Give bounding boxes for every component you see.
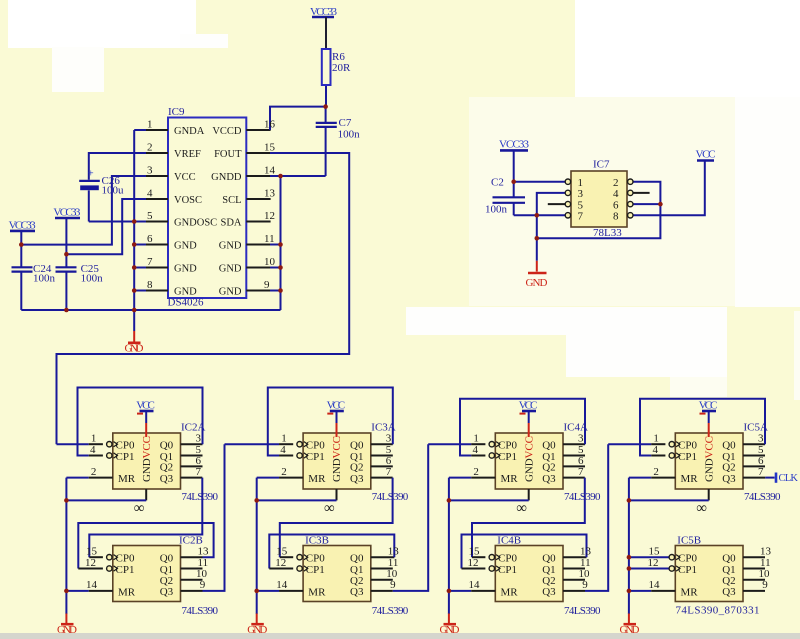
svg-text:C2: C2 (491, 177, 504, 189)
svg-text:3: 3 (386, 433, 392, 445)
svg-text:14: 14 (264, 165, 276, 177)
svg-text:4: 4 (280, 444, 286, 456)
svg-text:7: 7 (578, 466, 584, 478)
svg-text:GNDD: GNDD (211, 172, 242, 183)
svg-text:Q2: Q2 (350, 462, 363, 474)
svg-text:2: 2 (613, 177, 619, 189)
svg-text:11: 11 (264, 233, 275, 245)
svg-text:VOSC: VOSC (174, 195, 202, 206)
svg-text:15: 15 (276, 546, 288, 558)
svg-text:Q3: Q3 (350, 473, 364, 485)
svg-text:Q2: Q2 (160, 575, 173, 587)
svg-text:Q0: Q0 (722, 440, 736, 452)
svg-text:VCCD: VCCD (212, 126, 242, 137)
svg-text:IC7: IC7 (593, 159, 610, 171)
svg-text:14: 14 (276, 579, 288, 591)
svg-text:CP1: CP1 (116, 564, 135, 576)
svg-text:16: 16 (264, 119, 276, 131)
svg-text:GNDOSC: GNDOSC (174, 218, 217, 229)
svg-text:12: 12 (275, 557, 286, 569)
svg-text:9: 9 (390, 579, 396, 591)
svg-text:1: 1 (473, 433, 479, 445)
svg-text:IC5B: IC5B (677, 535, 701, 547)
svg-text:2: 2 (91, 466, 97, 478)
svg-text:DS4026: DS4026 (168, 297, 205, 309)
svg-text:4: 4 (90, 444, 96, 456)
svg-text:GND: GND (125, 343, 144, 355)
svg-text:CP1: CP1 (306, 451, 325, 463)
svg-text:GND: GND (440, 624, 460, 636)
svg-text:2: 2 (473, 466, 479, 478)
svg-text:5: 5 (578, 199, 584, 211)
svg-text:6: 6 (147, 233, 153, 245)
svg-text:Q0: Q0 (350, 440, 364, 452)
svg-text:14: 14 (469, 579, 481, 591)
svg-text:CP1: CP1 (678, 564, 697, 576)
svg-text:GND: GND (219, 241, 242, 252)
svg-text:IC3A: IC3A (371, 422, 396, 434)
svg-text:13: 13 (388, 546, 400, 558)
svg-text:Q2: Q2 (542, 462, 555, 474)
svg-text:GND: GND (174, 264, 197, 275)
svg-text:9: 9 (200, 579, 206, 591)
svg-text:Q3: Q3 (160, 473, 174, 485)
svg-text:GNDVCC: GNDVCC (331, 436, 343, 482)
svg-text:Q3: Q3 (542, 586, 556, 598)
svg-text:12: 12 (468, 557, 479, 569)
svg-text:74LS390: 74LS390 (564, 605, 601, 617)
svg-text:74LS390: 74LS390 (182, 605, 219, 617)
svg-text:CP0: CP0 (498, 440, 517, 452)
svg-text:CP1: CP1 (498, 451, 517, 463)
svg-text:15: 15 (264, 142, 276, 154)
svg-text:3: 3 (578, 433, 584, 445)
svg-text:100n: 100n (33, 273, 56, 285)
svg-text:CP0: CP0 (678, 440, 697, 452)
svg-text:GND: GND (247, 624, 267, 636)
svg-text:1: 1 (91, 433, 97, 445)
svg-text:GNDVCC: GNDVCC (523, 436, 535, 482)
svg-text:12: 12 (85, 557, 96, 569)
svg-text:13: 13 (198, 546, 210, 558)
svg-text:CP0: CP0 (116, 440, 135, 452)
svg-text:100u: 100u (102, 185, 125, 197)
svg-text:7: 7 (147, 256, 153, 268)
svg-text:8: 8 (613, 211, 619, 223)
svg-text:15: 15 (649, 546, 661, 558)
svg-text:12: 12 (264, 210, 275, 222)
svg-text:2: 2 (281, 466, 287, 478)
svg-text:IC2A: IC2A (181, 422, 206, 434)
svg-text:MR: MR (501, 473, 519, 485)
svg-text:Q2: Q2 (542, 575, 555, 587)
svg-text:GND: GND (174, 241, 197, 252)
svg-text:VCC: VCC (696, 149, 716, 161)
svg-text:78L33: 78L33 (593, 227, 622, 239)
svg-text:CP1: CP1 (306, 564, 325, 576)
svg-text:VREF: VREF (174, 149, 201, 160)
svg-text:74LS390: 74LS390 (372, 605, 409, 617)
svg-text:3: 3 (147, 165, 153, 177)
svg-text:FOUT: FOUT (214, 149, 242, 160)
svg-text:GND: GND (620, 624, 640, 636)
svg-text:IC3B: IC3B (305, 535, 329, 547)
svg-text:CP0: CP0 (498, 553, 517, 565)
svg-text:CP1: CP1 (678, 451, 697, 463)
svg-text:GND: GND (219, 287, 242, 298)
svg-text:GND: GND (219, 264, 242, 275)
svg-text:Q2: Q2 (722, 462, 735, 474)
svg-text:9: 9 (762, 579, 768, 591)
svg-text:4: 4 (653, 444, 659, 456)
svg-text:13: 13 (760, 546, 772, 558)
svg-text:8: 8 (147, 279, 153, 291)
svg-text:12: 12 (648, 557, 659, 569)
svg-text:CP0: CP0 (306, 440, 325, 452)
svg-text:∞: ∞ (696, 501, 707, 517)
svg-text:GNDA: GNDA (174, 126, 205, 137)
svg-text:Q0: Q0 (160, 553, 174, 565)
svg-text:∞: ∞ (516, 501, 527, 517)
svg-text:Q2: Q2 (350, 575, 363, 587)
svg-text:∞: ∞ (324, 501, 335, 517)
svg-text:C7: C7 (339, 117, 352, 129)
svg-text:Q0: Q0 (350, 553, 364, 565)
svg-text:Q3: Q3 (160, 586, 174, 598)
svg-text:74LS390: 74LS390 (744, 491, 781, 503)
svg-text:Q3: Q3 (350, 586, 364, 598)
svg-text:∞: ∞ (134, 501, 145, 517)
svg-text:7: 7 (758, 466, 764, 478)
svg-text:1: 1 (653, 433, 659, 445)
svg-text:CP0: CP0 (306, 553, 325, 565)
svg-text:MR: MR (681, 586, 699, 598)
svg-text:CLK: CLK (779, 473, 799, 484)
svg-text:11: 11 (198, 557, 209, 569)
svg-text:IC4B: IC4B (497, 535, 521, 547)
svg-text:Q2: Q2 (160, 462, 173, 474)
svg-text:11: 11 (580, 557, 591, 569)
svg-text:14: 14 (649, 579, 661, 591)
svg-text:+: + (88, 169, 94, 180)
svg-text:74LS390: 74LS390 (564, 491, 601, 503)
svg-text:GND: GND (526, 277, 548, 289)
svg-text:6: 6 (613, 199, 619, 211)
svg-text:MR: MR (308, 473, 326, 485)
svg-text:2: 2 (147, 142, 153, 154)
svg-text:11: 11 (388, 557, 399, 569)
svg-text:SDA: SDA (220, 218, 241, 229)
svg-text:4: 4 (147, 188, 153, 200)
svg-text:IC5A: IC5A (744, 422, 769, 434)
svg-text:GNDVCC: GNDVCC (141, 436, 153, 482)
svg-text:74LS390: 74LS390 (182, 491, 219, 503)
svg-text:CP0: CP0 (116, 553, 135, 565)
svg-text:IC4A: IC4A (564, 422, 589, 434)
svg-text:MR: MR (118, 586, 136, 598)
svg-text:Q1: Q1 (350, 564, 363, 576)
svg-text:CP1: CP1 (116, 451, 135, 463)
svg-text:MR: MR (681, 473, 699, 485)
svg-text:SCL: SCL (222, 195, 241, 206)
svg-text:100n: 100n (485, 204, 508, 216)
svg-text:MR: MR (308, 586, 326, 598)
svg-text:7: 7 (196, 466, 202, 478)
svg-text:15: 15 (86, 546, 98, 558)
svg-text:2: 2 (653, 466, 659, 478)
svg-text:MR: MR (501, 586, 519, 598)
svg-text:MR: MR (118, 473, 136, 485)
svg-text:100n: 100n (338, 129, 361, 141)
svg-text:1: 1 (578, 177, 584, 189)
svg-text:CP1: CP1 (498, 564, 517, 576)
svg-text:Q0: Q0 (542, 553, 556, 565)
svg-text:100n: 100n (81, 273, 104, 285)
svg-text:9: 9 (264, 279, 270, 291)
svg-text:13: 13 (580, 546, 592, 558)
svg-text:Q0: Q0 (542, 440, 556, 452)
svg-text:14: 14 (86, 579, 98, 591)
svg-text:GND: GND (57, 624, 77, 636)
svg-text:Q1: Q1 (160, 564, 173, 576)
svg-text:Q1: Q1 (722, 564, 735, 576)
svg-text:1: 1 (281, 433, 287, 445)
svg-text:Q0: Q0 (160, 440, 174, 452)
svg-text:10: 10 (264, 256, 276, 268)
svg-text:7: 7 (386, 466, 392, 478)
svg-text:3: 3 (196, 433, 202, 445)
svg-text:3: 3 (578, 188, 584, 200)
svg-text:74LS390_870331: 74LS390_870331 (676, 605, 760, 617)
svg-text:Q3: Q3 (542, 473, 556, 485)
svg-text:5: 5 (147, 210, 153, 222)
svg-text:VCC: VCC (174, 172, 196, 183)
svg-text:74LS390: 74LS390 (372, 491, 409, 503)
svg-text:4: 4 (473, 444, 479, 456)
svg-text:3: 3 (758, 433, 764, 445)
svg-text:13: 13 (264, 188, 276, 200)
svg-text:GND: GND (174, 287, 197, 298)
svg-text:7: 7 (578, 211, 584, 223)
svg-text:Q1: Q1 (542, 564, 555, 576)
svg-text:Q3: Q3 (722, 586, 736, 598)
svg-text:9: 9 (582, 579, 588, 591)
svg-text:CP0: CP0 (678, 553, 697, 565)
svg-text:20R: 20R (332, 62, 351, 74)
svg-text:15: 15 (469, 546, 481, 558)
svg-text:VCC33: VCC33 (499, 139, 530, 151)
svg-text:1: 1 (147, 119, 153, 131)
svg-text:IC9: IC9 (168, 106, 185, 118)
svg-text:11: 11 (760, 557, 771, 569)
svg-text:Q0: Q0 (722, 553, 736, 565)
svg-text:Q2: Q2 (722, 575, 735, 587)
svg-text:GNDVCC: GNDVCC (703, 436, 715, 482)
svg-text:Q3: Q3 (722, 473, 736, 485)
svg-text:4: 4 (613, 188, 619, 200)
